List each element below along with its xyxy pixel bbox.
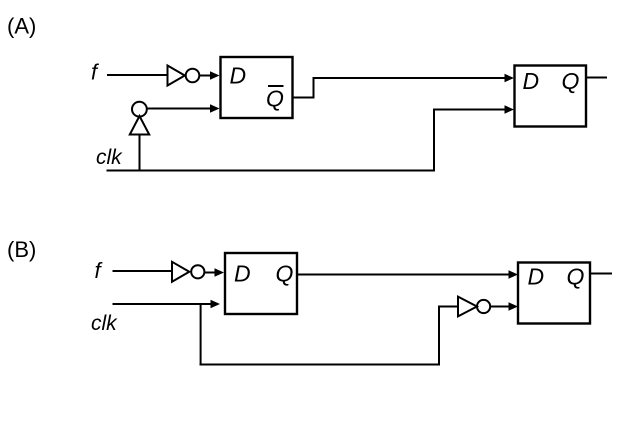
svg-text:f: f: [91, 60, 100, 85]
wire G1 output to U1.D with arrowhead: [199, 71, 220, 79]
pin label Qbar (U1): overbar: [268, 85, 284, 87]
pin label Qbar (U1): Q glyph: [266, 86, 284, 112]
svg-text:clk: clk: [96, 146, 123, 169]
wire U1.Qbar to U2.D with jog: [292, 78, 511, 98]
net label clk (circuit B): [91, 312, 118, 335]
svg-text:Q: Q: [562, 68, 580, 94]
pin label Q (U4): [567, 264, 585, 290]
wire f input (A): [107, 74, 168, 76]
inverter G1 bubble: [186, 69, 200, 83]
wire clk into U3 with arrowhead (B): [113, 300, 221, 308]
clock edge triangle symbol (A): [130, 116, 149, 135]
wire G2 output to U3.D with arrowhead: [204, 268, 224, 276]
wire clock symbol to clk bus (A): [139, 135, 141, 172]
label (A): [7, 14, 36, 39]
wire f input (B): [113, 270, 173, 272]
svg-text:D: D: [523, 68, 540, 94]
net label f (circuit B): [95, 258, 104, 283]
svg-text:Q: Q: [266, 86, 284, 112]
svg-text:f: f: [95, 258, 104, 283]
wire clk riser to U2 clock (A): [434, 110, 511, 171]
flip-flop U2: [515, 66, 587, 127]
inverter G3 triangle: [458, 297, 477, 317]
net label clk (circuit A): [96, 146, 123, 169]
pin label D (U3): [234, 261, 251, 287]
wire clk bottom run (B): [200, 364, 440, 366]
arrowhead into U2.D: [505, 74, 515, 82]
pin label Q (U2): [562, 68, 580, 94]
pin label D (U4): [528, 264, 545, 290]
inverter G1 triangle: [168, 66, 185, 86]
wire G3 output to U4 clock with arrowhead: [490, 302, 518, 310]
wire U4.Q output stub: [590, 273, 612, 275]
wire U3.Q to U4.D: [297, 274, 515, 276]
pin label Q (U3): [276, 261, 294, 287]
flip-flop U4: [518, 263, 590, 324]
net label f (circuit A): [91, 60, 100, 85]
pin label D (U1): [230, 63, 247, 89]
wire U2.Q output stub: [586, 77, 607, 79]
wire clk branch drop (B): [200, 304, 202, 366]
svg-text:D: D: [528, 264, 545, 290]
svg-text:D: D: [234, 261, 251, 287]
svg-text:D: D: [230, 63, 247, 89]
svg-text:(A): (A): [7, 14, 36, 39]
inverter G2 bubble: [191, 265, 204, 278]
inverter G2 triangle: [172, 262, 189, 282]
svg-text:(B): (B): [7, 237, 36, 262]
inverter G3 bubble: [477, 300, 490, 313]
flip-flop U3: [225, 253, 297, 314]
svg-text:clk: clk: [91, 312, 118, 335]
pin label D (U2): [523, 68, 540, 94]
wire clk riser to G3 (B): [439, 307, 458, 366]
svg-text:Q: Q: [276, 261, 294, 287]
clock bubble (U1 negative-edge clock): [132, 102, 147, 117]
wire clk bus horizontal (A): [107, 170, 436, 172]
arrowhead clk into U2: [505, 105, 515, 113]
flip-flop U1: [221, 57, 293, 118]
svg-text:Q: Q: [567, 264, 585, 290]
arrowhead into U4.D: [509, 270, 519, 278]
wire clock bubble to U1 with arrowhead: [147, 104, 220, 112]
label (B): [7, 237, 36, 262]
